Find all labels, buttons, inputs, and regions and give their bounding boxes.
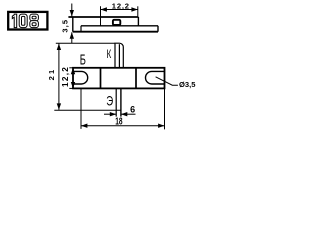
flange rectangle	[73, 68, 165, 89]
svg-text:12,2: 12,2	[61, 66, 70, 87]
svg-text:6: 6	[130, 105, 135, 115]
dimension 6 left arrow	[104, 112, 116, 116]
svg-text:21: 21	[47, 68, 56, 81]
left edge	[72, 17, 74, 32]
lower lead right line	[120, 88, 122, 116]
right slot	[146, 71, 165, 84]
dimension 12,2 line	[101, 7, 138, 11]
cap right side	[137, 17, 139, 26]
inner step vertical	[80, 26, 82, 32]
upper lead left line	[114, 44, 116, 68]
dimension 21 extension bottom	[54, 109, 121, 111]
dimension 3,5 arrows	[70, 4, 74, 44]
cap top line	[68, 16, 138, 18]
upper lead cap and outer bend	[114, 43, 123, 68]
dimension 18 extension left	[80, 89, 82, 129]
svg-text:Ø3,5: Ø3,5	[179, 80, 196, 89]
left slot	[73, 71, 88, 84]
plan 12,2 dimension arrows on flange left edge	[69, 68, 75, 89]
upper lead right line	[118, 44, 120, 68]
flange bottom line	[73, 31, 158, 33]
hole in cap	[113, 20, 120, 25]
svg-text:3,5: 3,5	[61, 19, 70, 33]
extension line left	[100, 6, 102, 26]
body left side	[100, 68, 102, 89]
page number box 108	[8, 12, 47, 30]
svg-text:К: К	[107, 48, 112, 61]
svg-text:Э: Э	[106, 94, 113, 109]
svg-text:12,2: 12,2	[112, 2, 130, 11]
diameter 3,5 leader	[156, 77, 178, 85]
body right side	[135, 68, 137, 89]
svg-text:Б: Б	[80, 51, 86, 68]
dimension 6 right arrow	[121, 112, 136, 116]
dimension 18 extension right	[164, 89, 166, 130]
svg-text:18: 18	[115, 115, 123, 127]
dimension 21 line with arrows	[57, 44, 61, 110]
dimension 21 extension top	[56, 42, 115, 44]
right edge	[157, 26, 159, 32]
extension line right	[137, 6, 139, 17]
dimension 18 line with arrows	[81, 124, 165, 128]
flange top line	[81, 25, 158, 27]
lower lead left line	[115, 88, 117, 116]
